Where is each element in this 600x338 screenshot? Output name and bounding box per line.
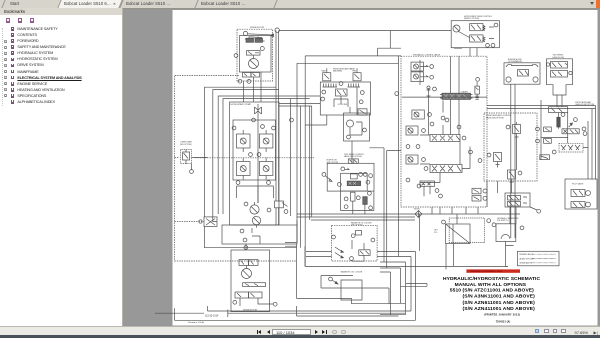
wire CB-CS links (541, 95, 588, 179)
valve V1a in motor M1 (245, 37, 265, 43)
bob-tach block BT (504, 58, 540, 84)
node 33 (275, 28, 279, 32)
svg-text:OIL FILTER: OIL FILTER (338, 104, 348, 106)
wire right column drops (399, 214, 454, 270)
wire pump internals (237, 186, 274, 203)
svg-text:RADIATOR / OIL COOLER: RADIATOR / OIL COOLER (341, 271, 363, 274)
node 32 (267, 181, 271, 185)
nav: next page (315, 330, 318, 334)
nav: history back/fwd (grey) (332, 330, 337, 335)
dashed pilot wire across pump (195, 157, 315, 159)
hcv feed verticals (450, 56, 459, 134)
relief valve V8b (411, 72, 434, 82)
wire FA drops (498, 142, 517, 194)
sheet frame line (155, 310, 405, 318)
relief valve V8f (406, 126, 425, 135)
node 28 (249, 153, 253, 157)
svg-text:HYDRAULIC SCHEMATIC S510: HYDRAULIC SCHEMATIC S510 (470, 270, 503, 273)
two speed spool TSP (347, 181, 360, 186)
node 62 (322, 90, 326, 94)
svg-text:115-32-1014: 115-32-1014 (205, 315, 219, 318)
node 25 (261, 125, 265, 129)
pump servo valve V2d (259, 158, 273, 180)
valve stack V7b (470, 35, 495, 47)
node 41 (233, 300, 237, 304)
node 30 (243, 31, 247, 35)
node 84 (457, 125, 461, 129)
drive select block DSB (451, 15, 499, 48)
wire top bus B (297, 56, 401, 214)
relief valve V11a (506, 122, 520, 142)
svg-text:5510 (S/N ATZC11001 AND ABOVE): 5510 (S/N ATZC11001 AND ABOVE) (450, 288, 534, 294)
rear aux spool RAS (552, 143, 583, 154)
wire diag servo (459, 32, 470, 38)
node 40 (244, 246, 248, 250)
arrow A1 (270, 34, 274, 37)
page sheet (173, 10, 598, 326)
lift cylinder CYL (434, 220, 470, 243)
relief below HF (351, 192, 355, 201)
two speed solenoid TSOL (557, 117, 578, 127)
svg-text:(S/N AZN411001 AND ABOVE): (S/N AZN411001 AND ABOVE) (463, 306, 536, 312)
svg-text:PILOT VALVE: PILOT VALVE (572, 183, 584, 186)
node 77 (344, 197, 348, 201)
pump rotary group P1a (250, 202, 259, 214)
svg-text:(HIGH FLOW OPTION): (HIGH FLOW OPTION) (575, 104, 594, 106)
check pair CKP1 (536, 127, 552, 132)
node 86 (478, 159, 482, 163)
wire pair east of pump (276, 31, 279, 226)
check valve V8c (427, 86, 437, 100)
node 24 (252, 118, 256, 122)
node 59 (406, 178, 410, 182)
title red bar (466, 269, 520, 273)
hydraulic motor symbol M2 (242, 266, 252, 279)
svg-text:REVISED JAN 13: REVISED JAN 13 (520, 253, 533, 256)
revision table RT (518, 251, 560, 265)
wire left nest A (205, 87, 277, 217)
node 61 (339, 82, 343, 86)
wire BT drop lines (511, 84, 515, 238)
front auxiliary base assembly AB (320, 68, 370, 142)
page number field (272, 329, 311, 335)
wire nest east corners (290, 99, 292, 216)
comb marks (323, 84, 338, 88)
wire TG drop (506, 246, 509, 267)
node 56 (416, 145, 420, 149)
relief valve V11b (487, 153, 501, 168)
node 36 (234, 54, 238, 58)
wire bottom network B (321, 276, 389, 304)
svg-text:(OIL SUPPLY): (OIL SUPPLY) (497, 220, 509, 222)
coupler block CB (549, 107, 568, 117)
svg-text:(PRINTED JANUARY 2013): (PRINTED JANUARY 2013) (484, 314, 520, 317)
wire bottom network D (175, 306, 416, 320)
wire spine pair mid (310, 106, 312, 220)
node 71 (322, 173, 326, 177)
relief pair RP (472, 188, 487, 201)
status bar (0, 326, 600, 336)
svg-text:(S/N AZN611001 AND ABOVE): (S/N AZN611001 AND ABOVE) (463, 300, 536, 306)
relief valve V11c (508, 170, 522, 184)
system dashed enclosure (175, 75, 297, 261)
node 83 (445, 118, 449, 122)
node 76 (338, 183, 342, 187)
wire right bus (487, 106, 596, 180)
pump servo valve V2a (237, 130, 251, 152)
svg-text:7254321 (A): 7254321 (A) (496, 320, 511, 323)
node 78 (356, 196, 360, 200)
wire M2 links (240, 244, 273, 306)
aux valve AV (336, 89, 348, 96)
wire cooler stubs (401, 284, 428, 287)
node 58 (441, 116, 445, 120)
servo cylinder circle (453, 25, 460, 32)
svg-text:CYL.: CYL. (434, 232, 438, 234)
wire HCV to bottom (432, 181, 487, 214)
node 72 (359, 173, 363, 177)
nav: last page (322, 330, 325, 334)
wire left feeders (285, 220, 305, 266)
loader spool V8d (440, 90, 473, 99)
svg-text:HYDROSTATIC PUMP: HYDROSTATIC PUMP (231, 103, 252, 106)
cylinder dashed surround (449, 218, 484, 243)
node 21b (290, 118, 294, 122)
svg-text:SN AND ABOVE: SN AND ABOVE (520, 262, 533, 265)
shuttle valve V1c (243, 73, 260, 78)
junction block J1 (199, 217, 217, 227)
node 55 (406, 145, 410, 149)
check pair CKP2 (536, 139, 552, 144)
node 60 (417, 184, 421, 188)
wire spine S1 (297, 56, 306, 299)
hydrostatic pump P1 enclosure (230, 102, 279, 225)
node 63 (360, 91, 364, 95)
double spool block DS (505, 193, 530, 207)
valve V3a in motor M2 (239, 260, 258, 266)
node 65 (359, 100, 363, 104)
svg-text:(SERVO OPTION): (SERVO OPTION) (464, 18, 479, 20)
svg-text:Printed in U.S.A.: Printed in U.S.A. (188, 321, 205, 324)
sidebar (0, 8, 123, 326)
svg-text:MACHINE): MACHINE) (333, 70, 342, 73)
node 82 (395, 92, 399, 96)
wire motor M1 to bus (248, 31, 452, 38)
wire J1 outlet (205, 227, 297, 248)
wire left nest B (213, 90, 279, 222)
spool valve V8i (424, 165, 462, 173)
hydraulic control valve HCV enclosure (401, 53, 487, 207)
node 85 (469, 150, 473, 154)
reservoir block RS (487, 207, 541, 246)
node 73 (363, 173, 367, 177)
drive motor M2 (bottom) (231, 250, 270, 312)
relief valve V8h (406, 155, 425, 164)
wire bottom network C (297, 298, 406, 314)
wire filter to HCV (370, 148, 402, 268)
node 27 (272, 126, 276, 130)
svg-text:FILTER: FILTER (414, 208, 420, 210)
high flow block HF (322, 154, 374, 214)
pilot block PB (565, 179, 597, 209)
charge pump box P1c (222, 225, 297, 244)
oil cooler enclosure OC (329, 222, 378, 285)
node 29 (257, 153, 261, 157)
document area background (123, 8, 600, 328)
case drain box CD (540, 155, 550, 160)
node 42 (273, 302, 277, 306)
wire staircase (306, 252, 416, 321)
node 37 (238, 79, 242, 83)
node 26 (232, 126, 236, 130)
pump servo valve V2c (237, 158, 251, 180)
svg-text:(S/N A3NK11001 AND ABOVE): (S/N A3NK11001 AND ABOVE) (463, 294, 536, 300)
dashed wire to gate valve (175, 157, 180, 159)
coupler CPL2 (353, 73, 361, 81)
pump charge line (255, 104, 262, 203)
title text (443, 276, 540, 324)
node 57 (430, 122, 434, 126)
nav: prev page (267, 330, 270, 334)
node 80 (344, 205, 348, 209)
svg-text:DRIVE MOTOR: DRIVE MOTOR (250, 27, 265, 29)
wire top bus A (378, 31, 402, 57)
bottom bus pair (297, 214, 521, 220)
wire HCV internals (420, 60, 470, 183)
high flow aux label (575, 101, 594, 106)
drive motor M1 (top) enclosure (237, 27, 273, 81)
svg-text:HYDRAULIC CONTROL VALVE: HYDRAULIC CONTROL VALVE (413, 53, 441, 56)
node 70 (341, 167, 345, 171)
lower gate valve V5 (180, 141, 208, 174)
valve stack V7a (top right) (470, 23, 498, 31)
hcv main line (402, 96, 487, 98)
svg-text:(S/N OPTION): (S/N OPTION) (180, 144, 192, 146)
wire AB feeds (305, 87, 357, 164)
wire pump top east pair (279, 104, 320, 107)
pilot valve small PV (351, 174, 358, 179)
coupler CPL1 (323, 73, 331, 81)
node 38 (247, 80, 251, 84)
filter F1 diamond (415, 211, 422, 218)
nav: first page (258, 330, 261, 334)
pump rotary group P1b (252, 216, 260, 227)
tab bar (0, 0, 600, 9)
wire M1 drops to pump (244, 72, 262, 102)
high flow spool HFS (562, 127, 587, 136)
svg-text:VALVE (S/N OPTION): VALVE (S/N OPTION) (486, 116, 504, 119)
wire cylinder drop (446, 214, 457, 267)
svg-text:MANUAL WITH ALL OPTIONS: MANUAL WITH ALL OPTIONS (455, 282, 527, 288)
sheet number (188, 315, 219, 324)
two speed block TS (546, 55, 572, 95)
bottom spool V8j (420, 181, 442, 198)
wire valves V7 drop (454, 48, 477, 57)
pump servo valve V2b (259, 130, 273, 152)
wire left nest C (218, 96, 320, 214)
shuttle valve V3c (235, 292, 262, 298)
dashed wire to junction (175, 221, 205, 223)
hydraulic motor symbol M1 (249, 56, 259, 69)
node 22 (267, 208, 271, 212)
svg-text:VALVE (S/N OPTION): VALVE (S/N OPTION) (344, 155, 362, 158)
node 74 (369, 174, 373, 178)
relief valve V8e (412, 110, 432, 119)
solenoid box SB (275, 201, 288, 213)
front auxiliary enclosure FA (484, 113, 537, 181)
node 75 (366, 180, 370, 184)
relief vertical V8r (475, 78, 480, 100)
valve V1b in motor M1 (247, 47, 265, 56)
node 31 (236, 181, 240, 185)
wire DS-RS link (510, 207, 516, 224)
node 79 (368, 191, 372, 195)
node 21 (244, 202, 248, 206)
node 64 (321, 97, 325, 101)
wire bottom network A (305, 265, 508, 267)
wire rect loop RL (341, 280, 362, 300)
spool valve V8g (430, 135, 466, 142)
valve V3b in motor M2 (243, 283, 266, 287)
svg-text:HYDRAULIC/HYDROSTATIC SCHEMATI: HYDRAULIC/HYDROSTATIC SCHEMATIC (443, 276, 540, 282)
view mode icons (535, 329, 540, 333)
relief valve V8a (411, 62, 434, 71)
node 81 (369, 206, 373, 210)
